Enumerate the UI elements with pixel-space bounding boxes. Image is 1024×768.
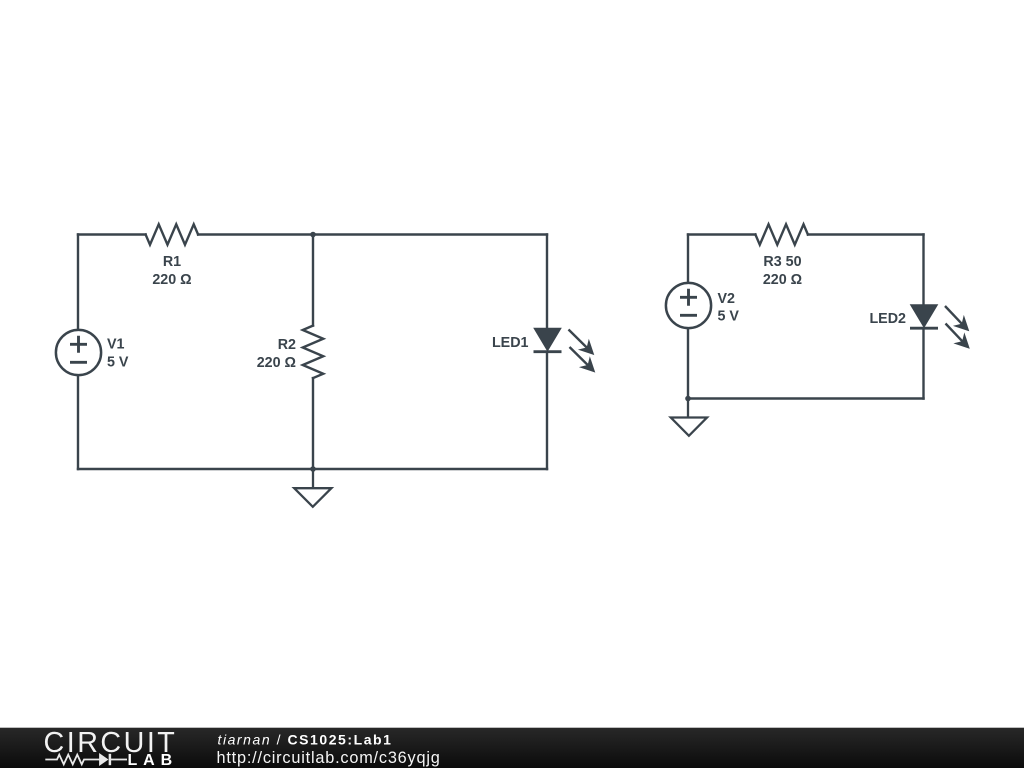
- resistor R2: [303, 326, 324, 379]
- ground (right circuit): [671, 399, 707, 436]
- svg-text:220 Ω: 220 Ω: [763, 272, 802, 288]
- wire right vertical down to LED2: [922, 235, 924, 306]
- wire right vertical: corner down to LED1: [546, 235, 548, 329]
- resistor R1: [146, 224, 199, 245]
- wire: R2 down to bottom node: [312, 378, 314, 469]
- wire: node A down to R2: [312, 235, 314, 326]
- svg-text:R3 50: R3 50: [763, 254, 801, 270]
- LED1: [534, 329, 595, 372]
- svg-text:LED2: LED2: [869, 311, 906, 327]
- wire left circuit: top wire left segment to R1: [78, 233, 146, 235]
- CircuitLab logo resistor-diode glyph: [45, 754, 127, 765]
- LED2 light arrows: [945, 306, 969, 348]
- wire LED2 cathode to bottom: [922, 328, 924, 398]
- wire top: R3 to top-right corner: [808, 233, 924, 235]
- wire right circuit: V2 top lead: [687, 235, 689, 284]
- wire bottom left circuit: [78, 468, 547, 470]
- svg-text:220 Ω: 220 Ω: [257, 355, 296, 371]
- resistor R3: [755, 224, 808, 245]
- svg-text:R2: R2: [278, 337, 296, 353]
- wire: LED1 cathode down to bottom wire: [546, 352, 548, 469]
- svg-text:220 Ω: 220 Ω: [152, 272, 191, 288]
- node A (top junction): [310, 232, 316, 238]
- svg-text:V2: V2: [718, 291, 736, 307]
- svg-text:5 V: 5 V: [718, 309, 740, 325]
- svg-text:5 V: 5 V: [107, 355, 129, 371]
- wire left circuit: bottom-left vertical (V1 bottom lead): [77, 375, 79, 469]
- svg-text:V1: V1: [107, 337, 125, 353]
- svg-text:LAB: LAB: [128, 752, 179, 768]
- svg-text:LED1: LED1: [492, 335, 529, 351]
- LED2: [910, 305, 969, 348]
- wire left circuit: top-left vertical (V1 top lead): [77, 235, 79, 331]
- svg-text:R1: R1: [163, 254, 181, 270]
- wire right circuit: V2 bottom lead: [687, 328, 689, 399]
- labels: [107, 254, 906, 371]
- LED1 light arrows: [569, 330, 595, 372]
- node right circuit bottom-left junction: [685, 396, 691, 402]
- right circuit: [688, 224, 924, 398]
- svg-text:tiarnan / CS1025:Lab1: tiarnan / CS1025:Lab1: [218, 731, 393, 747]
- ground (left circuit): [294, 469, 331, 507]
- wire top: corner to R3: [688, 233, 755, 235]
- voltage source V1: [56, 330, 101, 375]
- wire bottom right circuit: [688, 397, 924, 399]
- wire top: R1 to node A: [198, 233, 313, 235]
- wire top: node A to top-right corner: [313, 233, 547, 235]
- node bottom junction: [310, 466, 316, 472]
- svg-text:http://circuitlab.com/c36yqjg: http://circuitlab.com/c36yqjg: [217, 749, 441, 767]
- voltage source V2: [666, 283, 711, 328]
